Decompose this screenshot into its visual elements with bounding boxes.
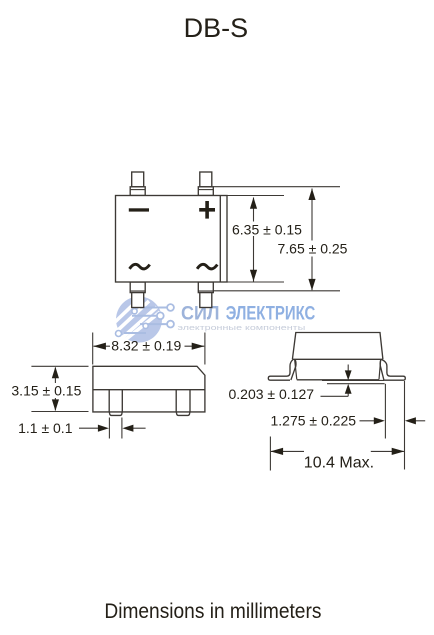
dimension line 8.32: [94, 345, 111, 347]
arrow left-pointing 1.1: [122, 425, 133, 432]
extension line: body bottom level: [227, 281, 284, 283]
top view: inner edge line right: [219, 196, 221, 283]
extension line right of 8.32: [204, 333, 206, 365]
top view: pin 2 top-right: [198, 172, 213, 196]
arrow right 8.32: [192, 343, 205, 350]
dimension line 10.4: [271, 450, 304, 452]
side view: body outline: [93, 366, 205, 412]
arrow down 6.35: [250, 270, 257, 282]
svg-text:0.203 ± 0.127: 0.203 ± 0.127: [229, 386, 315, 402]
top view: pin 4 bottom-right: [198, 282, 213, 308]
reference line 0.203 upper: [322, 379, 384, 381]
arrow down 0.203: [345, 370, 352, 380]
plus symbol: [199, 201, 215, 219]
svg-text:ЭЛЕКТРИКС: ЭЛЕКТРИКС: [226, 303, 315, 325]
extension line left of 8.32: [92, 333, 94, 365]
arrow right-pointing 1.1: [98, 425, 109, 432]
end view: right gull-wing lead: [382, 360, 405, 381]
dimension line 7.65: [311, 189, 313, 241]
watermark logo disc: [115, 297, 174, 343]
leader up-arrow 0.203: [347, 392, 349, 396]
arrow left-pointing 1.275: [405, 417, 416, 424]
end view: body: [292, 333, 383, 380]
svg-text:DB-S: DB-S: [184, 13, 249, 43]
extension lines 1.1: [108, 418, 110, 439]
svg-text:6.35 ± 0.15: 6.35 ± 0.15: [232, 222, 302, 238]
end view: body lower side left: [295, 359, 297, 379]
arrow down 3.15: [52, 399, 59, 411]
top view: pin 3 bottom-left: [130, 282, 145, 308]
arrow up 6.35: [250, 197, 257, 209]
svg-text:3.15 ± 0.15: 3.15 ± 0.15: [11, 383, 81, 399]
extension line 1.275 left: [384, 384, 386, 439]
svg-text:Dimensions in millimeters: Dimensions in millimeters: [104, 600, 321, 623]
svg-text:1.1 ± 0.1: 1.1 ± 0.1: [18, 420, 73, 436]
side view: left lead: [109, 390, 122, 416]
arrow left 8.32: [93, 343, 106, 350]
arrow up 7.65: [308, 189, 315, 201]
reference line 0.203 lower: [327, 383, 385, 385]
leader lines 1.275: [360, 420, 378, 422]
extension line: pin shoulder bottom level: [213, 290, 340, 292]
extension line bottom of 3.15: [31, 411, 88, 413]
dimension line 6.35: [253, 198, 255, 222]
minus symbol: [129, 208, 149, 211]
tilde symbol left (AC): [130, 264, 150, 269]
tilde symbol right (AC): [197, 264, 217, 269]
leader lines 1.1: [79, 427, 101, 429]
extension line: body top level: [227, 195, 284, 197]
side view: right lead: [176, 390, 190, 416]
end view: left gull-wing lead: [268, 360, 293, 381]
leader down-arrow 0.203: [347, 365, 349, 373]
svg-text:электронные компоненты: электронные компоненты: [178, 323, 306, 332]
arrow down 7.65: [308, 279, 315, 291]
side view: mold step line: [93, 389, 205, 391]
extension line top of 3.15: [31, 365, 88, 367]
extension line 1.275 right / 10.4 right: [404, 381, 406, 470]
svg-text:7.65 ± 0.25: 7.65 ± 0.25: [278, 241, 348, 257]
extension line: pin shoulder top level: [213, 186, 340, 188]
arrow right 10.4: [392, 448, 405, 455]
top view: package body: [116, 196, 228, 283]
arrow up 3.15: [52, 367, 59, 379]
arrow right-pointing 1.275: [374, 417, 385, 424]
extension line 10.4 left: [269, 437, 271, 471]
svg-text:10.4 Max.: 10.4 Max.: [304, 454, 374, 471]
dimension line 3.15: [54, 368, 56, 384]
arrow left 10.4: [270, 448, 283, 455]
top view: pin 1 top-left: [130, 172, 145, 196]
end view: body lower side right: [379, 359, 381, 379]
svg-text:1.275 ± 0.225: 1.275 ± 0.225: [271, 412, 357, 428]
arrow up 0.203: [345, 384, 352, 394]
svg-text:8.32 ± 0.19: 8.32 ± 0.19: [111, 337, 181, 353]
